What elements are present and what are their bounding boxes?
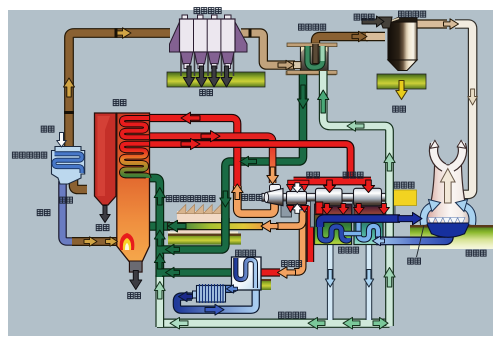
ground patch right of heat-exchange station [256, 279, 271, 290]
wire: gas/air line to burner (blue part) [63, 181, 75, 242]
label gongye-minyong 工业/民用用汽 [166, 196, 215, 202]
wire: brown flue pipe cooler->FGD (top) [316, 37, 369, 46]
arrow: slag down from boiler 除渣 [130, 271, 142, 290]
label gaoyagang 高压缸 [242, 194, 262, 200]
arrow: blue left into finned cooler [227, 285, 238, 293]
label chuzha 除渣 [128, 293, 141, 299]
wire: bottom heat-supply return pipe 抽汽供热 [157, 319, 390, 328]
ground strip under electrostatic precipitator [167, 72, 265, 87]
white flow arrow up below coupling [292, 204, 302, 214]
arrow: dark green left B2 into V1 [166, 267, 180, 277]
flue gas cooler 烟气冷却 box [287, 43, 337, 74]
label chuhui-furnace 除灰 [96, 225, 109, 231]
boiler right column with heating surfaces [117, 113, 150, 272]
exhaust hood over condenser box1 [315, 204, 352, 215]
air preheater 空气预热器 [52, 147, 85, 185]
label diyagang 低压缸 [343, 172, 363, 178]
arrow: orange left into factory steam line [261, 220, 278, 232]
arrow: orange left into heat station 中压缸 line [278, 267, 296, 279]
label yanqilengque 烟气冷却 [299, 24, 326, 30]
condenser coil in box1 [320, 219, 349, 241]
boiler coil serpentine [122, 118, 149, 178]
label kongqi-preheat 空气 [41, 126, 54, 132]
boiler slag spout [130, 261, 143, 272]
arrow: dark green left at factory line west end [168, 220, 186, 232]
heat exchange station 换热站 box [232, 257, 262, 290]
wire: LP extraction orange branch to factory line [276, 214, 303, 226]
condenser box2 [354, 215, 383, 245]
wire: cold reheat red pipe boiler->HP riser [146, 118, 237, 187]
label chouqigongre 抽汽供热 [279, 312, 306, 318]
wire: V3 segment crossing over factory line [221, 218, 230, 234]
label kongqi-tower 空气 [408, 258, 421, 264]
wire: heat-station box to finned cooler drop [224, 279, 236, 289]
arrow: pale green up arrows on right riser [384, 153, 395, 171]
ground strip under factory [168, 231, 238, 233]
cooling tower body [425, 165, 472, 224]
label qiji 汽机 [307, 172, 320, 178]
inlet stub from precipitator line [294, 62, 302, 69]
wire: heat-station circulating loop [177, 288, 256, 310]
boiler 锅炉 left furnace column [95, 113, 117, 205]
red drop pipe into condenser box1 [316, 202, 323, 214]
wire: gradient steam pipe to factory / V1 (band P) [168, 223, 263, 230]
arrow: gypsum yellow down 石膏 [396, 81, 407, 100]
arrow: green right into right riser [373, 317, 388, 329]
factory building 工业/民用用汽 [177, 205, 221, 234]
label huanrezhan 换热站 [236, 250, 256, 256]
wire: circulating water supply pipe to cooling tower [320, 219, 400, 227]
arrow: red exhaust arrows into condenser hoods [322, 204, 333, 215]
condenser coil in box2 [359, 217, 381, 240]
junction tick on brown riser [64, 111, 74, 114]
label shigao 石膏 [393, 106, 406, 112]
arrow: condensate light blue down x2 [325, 270, 335, 288]
arrow: dark green down on cooler drop [297, 85, 308, 109]
air up-arrow inside tower [441, 169, 456, 204]
label chuhui-precip 除灰 [200, 90, 213, 96]
wire: main steam pipe B boiler->LP manifold [146, 144, 351, 180]
wire: tan flue pipe precipitator->flue gas cooler [241, 33, 295, 65]
electrostatic precipitator 电除尘器 [170, 15, 248, 76]
wire: beige flue pipe into FGD [366, 32, 385, 41]
air curved arrow right at tower base [463, 206, 472, 225]
heat station coil [236, 258, 256, 288]
LP cylinder 1 [316, 188, 343, 206]
arrow: dark green down on V3 [220, 191, 231, 207]
water U-tube inside cooler [308, 46, 323, 68]
precipitator hoppers [181, 52, 194, 64]
label fadianji 发电机 [394, 182, 414, 188]
arrow: red right on main steam A [201, 131, 220, 142]
leader line for 空气 label [417, 225, 425, 257]
arrow: red manifold down onto LP2 [362, 180, 374, 193]
tan base line under flue-gas cooler [286, 72, 336, 75]
wire: IP extraction orange pipe to heat station 中压缸 [294, 211, 303, 272]
condenser box1 凝汽器 [315, 215, 352, 245]
arrow: dark blue left out of finned cooler [179, 292, 193, 302]
wire: link between condenser coils [344, 231, 361, 237]
ground strip under cooling tower [410, 225, 493, 249]
wire: flue gas elbow boiler->preheater [74, 177, 88, 190]
arrow: gold up on flue riser [64, 78, 75, 97]
white flow arrow down at coupling [292, 183, 302, 193]
arrow: red right on main steam B [181, 138, 200, 149]
generator 发电机 [393, 190, 417, 206]
arrow: gold right on flue top [117, 28, 131, 38]
arrow: ash down from furnace 除灰 [100, 206, 110, 223]
wire: beige FGD outlet pipe top [416, 19, 447, 28]
arrow: white air down into preheater [57, 133, 67, 148]
air curved arrow left at tower base [424, 206, 433, 225]
HP cylinder 高压缸 [270, 185, 281, 192]
cluster below coupling drum [287, 206, 295, 213]
wire: condensate drop pipe from condenser box2 [366, 243, 373, 320]
junction tick on brown horizontal [115, 28, 118, 38]
label yanqi-boiler 烟气 [60, 197, 73, 203]
arrow: tan right into cooler [278, 60, 294, 70]
wire: burner fuel line (brown part) [72, 237, 120, 246]
arrow: limestone dark right 石灰石 [362, 16, 384, 27]
arrow: orange up on HP exhaust riser [232, 184, 244, 200]
arrow: green left arrows on heating line [308, 317, 325, 329]
label zhongyagang 中压缸 [282, 261, 302, 267]
wire: red extraction drop pipe from LP crossover [307, 206, 315, 262]
wire: dark green pipe heat-station->V1 (B2) [162, 268, 233, 277]
arrow: gold right on burner line x2 [84, 237, 97, 246]
arrow: green up on cooler riser [318, 90, 329, 113]
arrow: blue right on loop bottom [205, 304, 224, 315]
arrow: dark green left B1 into V1 [166, 244, 180, 254]
precipitator support legs [181, 52, 234, 76]
wire: red turbine steam manifold [294, 177, 372, 186]
limestone inlet funnel [379, 17, 392, 28]
wire: feedwater riser V1 dark green upper part into boiler [148, 178, 160, 277]
wire: orange HP exhaust loop [237, 186, 274, 214]
arrow: pale left on heating line near V1 [170, 317, 188, 329]
arrow: red left on cold reheat [181, 112, 200, 124]
arrow: brown right cooler->FGD [352, 31, 367, 41]
boiler flame [120, 233, 135, 250]
arrow: dark green up arrows on V1 [154, 188, 165, 206]
wire: condensate riser V1 to boiler (pale lower part) [155, 275, 164, 327]
label kongqiyureqi 空气预热器 [12, 152, 46, 158]
cooling tower basin [427, 223, 470, 237]
arrow: pale green up on V1 low [154, 282, 165, 300]
arrow: beige right FGD outlet [444, 19, 459, 29]
wire: dark green pipe from flue cooler down and to V1 (via V3/B1) [162, 71, 303, 250]
label lengquета 冷却塔 [466, 250, 486, 256]
label yanqituoliu 烟气脱硫 [399, 11, 426, 17]
LP cylinder 2 [354, 188, 382, 206]
steam plume left [434, 144, 444, 167]
exhaust hood over condenser box2 [354, 204, 383, 215]
arrow: pale down inside stack pipe [468, 89, 478, 105]
label ranqi 燃气 [37, 210, 50, 216]
FGD tower 烟气脱硫 [379, 17, 417, 71]
arrow: navy right into tower basin [398, 212, 422, 224]
coupling drum between HP and IP [287, 192, 307, 205]
turbine shaft [262, 193, 393, 201]
wire: condensate drop pipe from condenser box1 [327, 243, 334, 320]
steam plume right [452, 144, 462, 167]
steam cluster at coupling drum: red bar [288, 180, 309, 184]
wire: main steam pipe A boiler->HP turbine [146, 136, 273, 183]
wire: flue gas brown pipe preheater->precipitator [69, 33, 170, 147]
label dianchuchenqi 电除尘器 [194, 8, 221, 14]
finned district-heating cooler [193, 284, 226, 303]
junction tick on tan pipe [249, 29, 252, 38]
ground strip under FGD tower [377, 74, 426, 89]
arrow: pale blue left return into condenser box2 [373, 236, 385, 246]
wire: red stub into heat station [261, 268, 280, 276]
arrow: orange down into HP inlet [267, 167, 279, 184]
wire: factory steam line west stub into boiler [148, 222, 170, 231]
arrow: pale green left on horizontal link [347, 121, 364, 131]
wire: pale green riser from heating line to flue cooler loop [323, 71, 389, 326]
label guolu 锅炉 [113, 100, 126, 106]
label ningqiqi 凝汽器 [339, 247, 359, 253]
spray zigzag in tower basin [428, 218, 465, 226]
turbine support pedestals [281, 201, 292, 217]
wire: white stack pipe FGD->cooling tower [455, 24, 473, 194]
flue inlet tube inside cooler [312, 44, 319, 64]
wire: cooled water return pipe tower->condenser [376, 232, 450, 241]
arrow: red manifold down onto LP1 [323, 180, 335, 193]
arrow: ash down arrows under precipitator [183, 66, 194, 87]
arrow: dark green left toward V3 [240, 156, 257, 166]
label shihuishi 石灰石 [354, 14, 374, 20]
